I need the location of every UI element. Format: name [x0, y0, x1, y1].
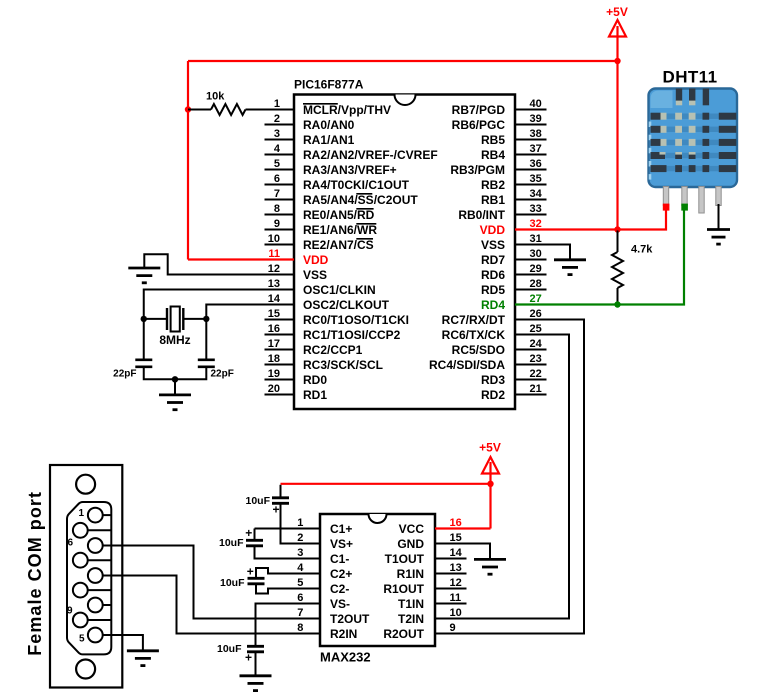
- svg-text:9: 9: [274, 218, 280, 230]
- svg-text:8MHz: 8MHz: [159, 333, 190, 347]
- svg-text:RE1/AN6/WR: RE1/AN6/WR: [303, 223, 377, 237]
- wire C6 to ground: [255, 652, 257, 676]
- svg-text:C2-: C2-: [330, 582, 349, 596]
- svg-text:RE0/AN5/RD: RE0/AN5/RD: [303, 208, 375, 222]
- U1 pin 18 stub: [265, 364, 295, 366]
- svg-text:GND: GND: [397, 537, 424, 551]
- svg-text:1: 1: [274, 98, 280, 110]
- U1 pin 29 stub: [515, 274, 547, 276]
- svg-text:C1-: C1-: [330, 552, 349, 566]
- U1 pin 36 stub: [515, 169, 547, 171]
- svg-text:17: 17: [268, 338, 280, 350]
- svg-text:OSC1/CLKIN: OSC1/CLKIN: [303, 283, 376, 297]
- IC U2 MAX232 body: [320, 514, 435, 646]
- svg-text:29: 29: [530, 263, 542, 275]
- svg-text:RC1/T1OSI/CCP2: RC1/T1OSI/CCP2: [303, 328, 401, 342]
- U1 pin 30 stub: [515, 259, 547, 261]
- overline CS (pin 10): [356, 238, 373, 240]
- U1 pin 3 stub: [265, 139, 295, 141]
- svg-text:VCC: VCC: [399, 522, 425, 536]
- svg-text:T2IN: T2IN: [398, 612, 424, 626]
- U1 pin 28 stub: [515, 289, 547, 291]
- U1 pin 35 stub: [515, 184, 547, 186]
- svg-text:T1OUT: T1OUT: [385, 552, 425, 566]
- U1 pin 19 stub: [265, 379, 295, 381]
- wire VDD to U1 pin 11: [188, 258, 294, 260]
- svg-text:13: 13: [450, 562, 462, 574]
- capacitor C6 10uF: [247, 646, 264, 652]
- svg-text:+: +: [245, 526, 252, 540]
- svg-text:RB0/INT: RB0/INT: [458, 208, 505, 222]
- svg-text:10uF: 10uF: [219, 537, 244, 549]
- svg-text:10uF: 10uF: [245, 495, 270, 507]
- svg-text:3: 3: [297, 547, 303, 559]
- svg-text:RC3/SCK/SCL: RC3/SCK/SCL: [303, 358, 383, 372]
- svg-text:VS-: VS-: [330, 597, 350, 611]
- DHT11 pin 2 wire tip (DATA): [681, 204, 688, 211]
- U1 pin 21 stub: [515, 394, 547, 396]
- svg-text:14: 14: [450, 547, 463, 559]
- svg-text:MCLR/Vpp/THV: MCLR/Vpp/THV: [303, 103, 391, 117]
- svg-text:VDD: VDD: [303, 253, 329, 267]
- svg-text:26: 26: [530, 308, 542, 320]
- J1 pin 6: [73, 523, 88, 538]
- svg-text:+: +: [272, 503, 279, 517]
- J1 pin 1 lead: [103, 514, 112, 516]
- svg-text:RB1: RB1: [481, 193, 505, 207]
- svg-text:7: 7: [297, 607, 303, 619]
- J1 pin 4 lead: [103, 604, 112, 606]
- wire U2 pin 15 GND to ground: [435, 544, 490, 560]
- junction +5V/C3: [487, 481, 493, 487]
- svg-text:22: 22: [530, 368, 542, 380]
- svg-text:8: 8: [274, 203, 280, 215]
- svg-text:9: 9: [67, 606, 73, 617]
- J1 pin 9: [73, 613, 88, 628]
- junction OSC1/X1: [141, 316, 147, 322]
- svg-text:39: 39: [530, 113, 542, 125]
- svg-text:RB5: RB5: [481, 133, 505, 147]
- DHT11 vent slot pattern: [651, 89, 737, 173]
- J1 pin 9 lead: [88, 619, 112, 621]
- U1 pin 8 stub: [265, 214, 295, 216]
- svg-text:+: +: [247, 565, 254, 579]
- U1 pin 37 stub: [515, 154, 547, 156]
- wire caps to common ground node: [144, 367, 207, 380]
- J1 pin 2 lead: [103, 545, 112, 547]
- junction caps/ground: [172, 376, 178, 382]
- DHT11 legs (pins 1-4): [663, 187, 668, 206]
- svg-text:10uF: 10uF: [217, 643, 242, 655]
- svg-text:RD6: RD6: [481, 268, 505, 282]
- crystal X1 8MHz: [144, 307, 207, 332]
- ground (C6): [240, 676, 272, 691]
- wire C4 top: [254, 529, 256, 540]
- svg-text:6: 6: [67, 538, 73, 549]
- svg-text:R1IN: R1IN: [397, 567, 424, 581]
- wire C3 to +5V rail: [280, 485, 282, 497]
- wire U1 pin 13 OSC1 to crystal: [144, 290, 294, 360]
- svg-text:15: 15: [268, 308, 280, 320]
- svg-text:34: 34: [530, 188, 543, 200]
- svg-text:11: 11: [450, 592, 462, 604]
- svg-text:13: 13: [268, 278, 280, 290]
- J1 pin 5 lead: [103, 634, 112, 636]
- svg-text:24: 24: [530, 338, 543, 350]
- U1 pin 39 stub: [515, 124, 547, 126]
- svg-text:10k: 10k: [206, 91, 225, 103]
- ground (crystal caps): [159, 395, 191, 410]
- wire VDD net left vertical: [187, 61, 189, 260]
- svg-text:38: 38: [530, 128, 542, 140]
- svg-text:37: 37: [530, 143, 542, 155]
- U1 pin 20 stub: [265, 394, 295, 396]
- svg-text:11: 11: [268, 248, 280, 260]
- svg-text:6: 6: [297, 592, 303, 604]
- junction DATA/R2: [614, 301, 620, 307]
- ground (U1 VSS pin 12): [128, 268, 160, 283]
- svg-text:32: 32: [530, 218, 542, 230]
- wire U1 pin 32 VDD to DHT11 pin 1: [515, 206, 666, 230]
- svg-text:RD7: RD7: [481, 253, 505, 267]
- svg-text:RD3: RD3: [481, 373, 505, 387]
- svg-text:10: 10: [450, 607, 462, 619]
- IC U1 PIC16F877A microcontroller body: [294, 95, 515, 410]
- J1 pin 8: [73, 583, 88, 598]
- wire U2 pin 6 VS- to C6: [256, 604, 321, 646]
- svg-text:RD0: RD0: [303, 373, 327, 387]
- U1 pin 9 stub: [265, 229, 295, 231]
- svg-text:RB7/PGD: RB7/PGD: [452, 103, 506, 117]
- ground (DHT11 pin 4): [707, 230, 730, 245]
- U1 pin 2 stub: [265, 124, 295, 126]
- J1 pin 7: [73, 553, 88, 568]
- wire J1 pin 3 TXD to U2 pin 8 R2IN: [111, 576, 320, 634]
- svg-text:C1+: C1+: [330, 522, 352, 536]
- U1 pin 23 stub: [515, 364, 547, 366]
- wire U1 pin 31 VSS to ground: [515, 245, 570, 260]
- svg-text:4: 4: [274, 143, 281, 155]
- svg-text:VSS: VSS: [481, 238, 505, 252]
- svg-text:RB4: RB4: [481, 148, 505, 162]
- svg-text:MAX232: MAX232: [320, 650, 371, 665]
- svg-text:18: 18: [268, 353, 280, 365]
- U2 pin 13 stub: [435, 573, 467, 575]
- svg-text:RA3/AN3/VREF+: RA3/AN3/VREF+: [303, 163, 397, 177]
- svg-text:R2IN: R2IN: [330, 627, 357, 641]
- overline RD (pin 8): [356, 208, 373, 210]
- svg-text:T1IN: T1IN: [398, 597, 424, 611]
- capacitor C5 10uF: [248, 578, 265, 584]
- J1 pin 3: [88, 568, 103, 583]
- svg-text:R2OUT: R2OUT: [383, 627, 424, 641]
- capacitor C4 10uF: [246, 540, 263, 546]
- svg-text:2: 2: [274, 113, 280, 125]
- wire U1 pin 27 RD4 to DHT11 pin 2 (DATA): [515, 206, 684, 305]
- ground (U2 pin 15): [474, 559, 506, 574]
- U1 top notch: [395, 95, 416, 106]
- wire DHT11 pin 4 to ground: [718, 204, 720, 229]
- svg-text:OSC2/CLKOUT: OSC2/CLKOUT: [303, 298, 390, 312]
- svg-text:23: 23: [530, 353, 542, 365]
- J1 pin 5: [88, 628, 103, 643]
- wire to ground (crystal): [174, 379, 176, 395]
- J1 screw hole (bottom): [76, 660, 95, 679]
- svg-text:+5V: +5V: [606, 5, 628, 19]
- overline WR (pin 9): [356, 223, 376, 225]
- svg-text:19: 19: [268, 368, 280, 380]
- svg-text:3: 3: [274, 128, 280, 140]
- svg-text:25: 25: [530, 323, 542, 335]
- capacitor C3 10uF: [272, 498, 289, 504]
- U2 top notch: [369, 514, 387, 523]
- svg-text:RB6/PGC: RB6/PGC: [452, 118, 506, 132]
- U2 pin 12 stub: [435, 588, 467, 590]
- U1 pin 24 stub: [515, 349, 547, 351]
- wire U1 pin 14 OSC2 to crystal: [206, 305, 294, 360]
- J1 pin 8 lead: [88, 589, 112, 591]
- svg-text:22pF: 22pF: [113, 369, 136, 380]
- J1 pin 3 lead: [103, 575, 112, 577]
- wire C4 to U2 pin 3 C1-: [255, 546, 321, 559]
- svg-text:T2OUT: T2OUT: [330, 612, 370, 626]
- power symbol +5V (top): [606, 5, 628, 37]
- svg-text:28: 28: [530, 278, 542, 290]
- svg-text:DHT11: DHT11: [663, 68, 718, 87]
- svg-text:1: 1: [78, 508, 84, 519]
- J1 pin 6 lead: [88, 529, 112, 531]
- U1 pin 22 stub: [515, 379, 547, 381]
- svg-text:RC4/SDI/SDA: RC4/SDI/SDA: [429, 358, 505, 372]
- ground (J1 pin 5): [127, 651, 159, 666]
- svg-text:35: 35: [530, 173, 542, 185]
- svg-text:15: 15: [450, 532, 462, 544]
- wire U1 pin 26 RC7/RX to U2 pin 9 R2OUT: [435, 320, 584, 634]
- svg-text:10uF: 10uF: [220, 577, 245, 589]
- svg-text:PIC16F877A: PIC16F877A: [294, 78, 364, 92]
- U1 pin 10 stub: [265, 244, 295, 246]
- svg-text:16: 16: [450, 517, 462, 529]
- svg-text:6: 6: [274, 173, 280, 185]
- power symbol +5V (MAX232): [479, 440, 501, 473]
- svg-text:12: 12: [450, 577, 462, 589]
- J1 pin 2: [88, 538, 103, 553]
- junction VDD/R2: [614, 226, 620, 232]
- svg-text:2: 2: [297, 532, 303, 544]
- svg-text:14: 14: [268, 293, 281, 305]
- wire C3 to U2 pin 2 VS+: [281, 503, 321, 543]
- svg-text:RA4/T0CKI/C1OUT: RA4/T0CKI/C1OUT: [303, 178, 410, 192]
- wire +5V to C3: [281, 483, 491, 485]
- wire VDD net top horizontal: [188, 60, 618, 62]
- svg-text:RA1/AN1: RA1/AN1: [303, 133, 355, 147]
- svg-text:7: 7: [274, 188, 280, 200]
- U1 pin 40 stub: [515, 109, 547, 111]
- U2 pin 14 stub: [435, 558, 467, 560]
- svg-text:RD5: RD5: [481, 283, 505, 297]
- svg-text:RB2: RB2: [481, 178, 505, 192]
- capacitor C1 22pF (left): [135, 360, 152, 367]
- wire J1 pin 5 GND to ground: [111, 635, 143, 650]
- junction OSC2/X1: [203, 316, 209, 322]
- wire U1 pin 12 VSS to ground: [144, 254, 294, 274]
- U1 pin 4 stub: [265, 154, 295, 156]
- U1 pin 15 stub: [265, 319, 295, 321]
- svg-text:8: 8: [297, 622, 303, 634]
- svg-text:RC6/TX/CK: RC6/TX/CK: [442, 328, 506, 342]
- svg-text:36: 36: [530, 158, 542, 170]
- svg-text:VSS: VSS: [303, 268, 327, 282]
- U1 pin 7 stub: [265, 199, 295, 201]
- svg-text:RA2/AN2/VREF-/CVREF: RA2/AN2/VREF-/CVREF: [303, 148, 438, 162]
- svg-text:30: 30: [530, 248, 542, 260]
- svg-text:40: 40: [530, 98, 542, 110]
- wire C5 to U2 pin 5 C2-: [256, 584, 320, 594]
- overline MCLR (pin 1): [303, 103, 338, 105]
- svg-text:Female COM port: Female COM port: [25, 491, 45, 656]
- svg-text:RD1: RD1: [303, 388, 327, 402]
- svg-text:4: 4: [297, 562, 304, 574]
- svg-text:31: 31: [530, 233, 542, 245]
- svg-text:21: 21: [530, 383, 542, 395]
- sensor DHT11 body: [649, 89, 738, 188]
- svg-text:1: 1: [297, 517, 303, 529]
- svg-text:5: 5: [297, 577, 303, 589]
- U1 pin 5 stub: [265, 169, 295, 171]
- wire U2 pin 16 VCC: [435, 527, 491, 529]
- U1 pin 38 stub: [515, 139, 547, 141]
- svg-text:10: 10: [268, 233, 280, 245]
- U1 pin 16 stub: [265, 334, 295, 336]
- wire +5V to U2 pin 16: [489, 462, 491, 529]
- svg-text:RC2/CCP1: RC2/CCP1: [303, 343, 363, 357]
- svg-text:16: 16: [268, 323, 280, 335]
- svg-text:RC7/RX/DT: RC7/RX/DT: [442, 313, 506, 327]
- svg-text:VS+: VS+: [330, 537, 353, 551]
- svg-text:5: 5: [79, 634, 85, 645]
- U2 pin 11 stub: [435, 603, 467, 605]
- J1 pin 4: [88, 598, 103, 613]
- resistor R1 10k: [188, 109, 211, 111]
- svg-text:9: 9: [450, 622, 456, 634]
- svg-text:RE2/AN7/CS: RE2/AN7/CS: [303, 238, 374, 252]
- svg-text:R1OUT: R1OUT: [383, 582, 424, 596]
- svg-text:27: 27: [530, 293, 542, 305]
- svg-text:RD2: RD2: [481, 388, 505, 402]
- svg-text:RA5/AN4/SS/C2OUT: RA5/AN4/SS/C2OUT: [303, 193, 418, 207]
- svg-text:RA0/AN0: RA0/AN0: [303, 118, 355, 132]
- U1 pin 33 stub: [515, 214, 547, 216]
- U1 pin 17 stub: [265, 349, 295, 351]
- J1 pin 7 lead: [88, 559, 112, 561]
- wire U2 pin 4 C2+ to C5: [256, 568, 320, 578]
- wire U1 pin 25 RC6/TX to U2 pin 10 T2IN: [435, 335, 569, 619]
- svg-text:33: 33: [530, 203, 542, 215]
- wire +5V vertical to VDD net: [616, 26, 618, 230]
- svg-text:5: 5: [274, 158, 280, 170]
- svg-text:+: +: [245, 651, 252, 665]
- svg-text:4.7k: 4.7k: [631, 244, 653, 256]
- wire J1 pin 2 RXD to U2 pin 7 T2OUT: [111, 546, 320, 619]
- svg-text:RC5/SDO: RC5/SDO: [452, 343, 505, 357]
- resistor R2 4.7k: [617, 231, 619, 253]
- svg-text:RC0/T1OSO/T1CKI: RC0/T1OSO/T1CKI: [303, 313, 409, 327]
- svg-text:20: 20: [268, 383, 280, 395]
- svg-text:RD4: RD4: [481, 298, 505, 312]
- wire U2 pin 1 C1+ lead: [255, 528, 321, 530]
- svg-text:+5V: +5V: [479, 440, 501, 454]
- J1 D-sub shell: [67, 502, 111, 654]
- overline SS (pin 7): [356, 193, 372, 195]
- J1 pin 1: [88, 508, 103, 523]
- connector J1 outer body: [50, 465, 122, 688]
- U1 pin 34 stub: [515, 199, 547, 201]
- svg-text:22pF: 22pF: [211, 369, 234, 380]
- junction +5V/top wire: [614, 58, 620, 64]
- svg-text:C2+: C2+: [330, 567, 352, 581]
- capacitor C2 22pF (right): [198, 360, 215, 367]
- svg-text:VDD: VDD: [480, 223, 506, 237]
- J1 screw hole (top): [76, 475, 95, 494]
- junction VDD/R1: [185, 106, 191, 112]
- ground (U1 VSS pin 31): [554, 260, 586, 275]
- U1 pin 6 stub: [265, 184, 295, 186]
- DHT11 pin 1 wire tip (VDD): [663, 204, 670, 211]
- svg-text:12: 12: [268, 263, 280, 275]
- svg-text:RB3/PGM: RB3/PGM: [450, 163, 505, 177]
